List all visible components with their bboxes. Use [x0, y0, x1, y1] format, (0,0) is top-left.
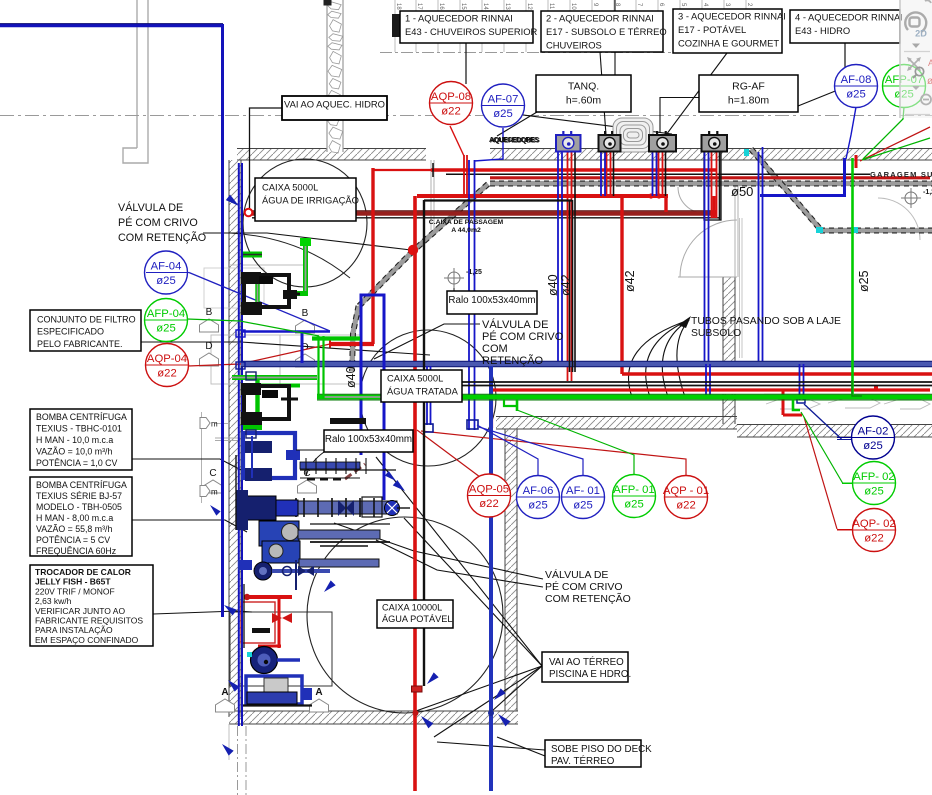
svg-text:D: D: [205, 341, 212, 352]
svg-text:13: 13: [504, 3, 510, 10]
svg-text:AF-08: AF-08: [841, 74, 872, 86]
svg-text:ÁGUA POTÁVEL: ÁGUA POTÁVEL: [382, 614, 452, 624]
svg-text:PARA INSTALAÇÃO: PARA INSTALAÇÃO: [35, 625, 113, 635]
svg-text:FREQUÊNCIA 60Hz: FREQUÊNCIA 60Hz: [36, 546, 116, 556]
svg-text:ESPECIFICADO: ESPECIFICADO: [37, 327, 104, 337]
svg-text:Ralo 100x53x40mm: Ralo 100x53x40mm: [448, 295, 535, 306]
svg-text:H MAN - 8,00 m.c.a: H MAN - 8,00 m.c.a: [36, 513, 113, 523]
svg-text:-1,2: -1,2: [923, 189, 932, 196]
svg-text:ø22: ø22: [676, 500, 695, 512]
svg-text:EM ESPAÇO CONFINADO: EM ESPAÇO CONFINADO: [35, 635, 139, 645]
svg-text:B: B: [302, 308, 309, 319]
svg-text:15: 15: [460, 3, 466, 10]
svg-text:AQUEREDQBES: AQUEREDQBES: [490, 138, 540, 145]
svg-text:MODELO - TBH-0505: MODELO - TBH-0505: [36, 502, 122, 512]
svg-text:ø42: ø42: [559, 274, 573, 296]
svg-text:2,63 kw/h: 2,63 kw/h: [35, 596, 72, 606]
svg-text:VERIFICAR JUNTO AO: VERIFICAR JUNTO AO: [35, 606, 125, 616]
svg-text:AQP- 02: AQP- 02: [852, 518, 895, 530]
svg-text:CAIXA 5000L: CAIXA 5000L: [262, 182, 318, 193]
svg-text:PELO FABRICANTE.: PELO FABRICANTE.: [37, 339, 123, 349]
svg-text:A: A: [315, 687, 322, 698]
svg-text:17: 17: [416, 3, 422, 10]
svg-text:POTÊNCIA = 1,0 CV: POTÊNCIA = 1,0 CV: [36, 458, 118, 468]
svg-text:C.AIXA DE PASSAGEM: C.AIXA DE PASSAGEM: [429, 219, 504, 226]
svg-text:ø25: ø25: [156, 323, 175, 335]
svg-text:AQP-04: AQP-04: [147, 353, 187, 365]
svg-text:PAV. TÉRREO: PAV. TÉRREO: [551, 756, 615, 767]
svg-text:1 - AQUECEDOR RINNAI: 1 - AQUECEDOR RINNAI: [405, 13, 513, 24]
svg-text:ø25: ø25: [528, 500, 547, 512]
svg-text:TEXIUS SÉRIE BJ-57: TEXIUS SÉRIE BJ-57: [36, 491, 122, 501]
svg-text:AF-04: AF-04: [151, 261, 182, 273]
svg-text:RETENÇÃO: RETENÇÃO: [482, 354, 544, 367]
svg-text:ø42: ø42: [623, 270, 637, 292]
svg-text:h=1.80m: h=1.80m: [728, 95, 769, 107]
svg-text:COZINHA E GOURMET: COZINHA E GOURMET: [678, 38, 779, 49]
svg-text:BOMBA CENTRÍFUGA: BOMBA CENTRÍFUGA: [36, 412, 127, 422]
svg-text:18: 18: [395, 3, 401, 10]
svg-text:ÁGUA DE IRRIGAÇÃO: ÁGUA DE IRRIGAÇÃO: [262, 194, 359, 205]
svg-text:2D: 2D: [915, 29, 927, 39]
svg-text:ø25: ø25: [863, 440, 882, 452]
svg-text:h=.60m: h=.60m: [566, 95, 602, 107]
svg-text:ø25: ø25: [864, 486, 883, 498]
svg-text:AFP- 01: AFP- 01: [613, 484, 654, 496]
svg-text:FABRICANTE REQUISITOS: FABRICANTE REQUISITOS: [35, 615, 143, 625]
svg-text:AF-02: AF-02: [858, 426, 889, 438]
svg-text:TANQ.: TANQ.: [568, 81, 599, 93]
svg-text:PÉ COM CRIVO: PÉ COM CRIVO: [545, 580, 623, 593]
svg-text:VAZÃO = 55,8 m³/h: VAZÃO = 55,8 m³/h: [36, 524, 112, 534]
svg-text:PISCINA E HDRO.: PISCINA E HDRO.: [549, 669, 631, 680]
svg-text:ø25: ø25: [156, 275, 175, 287]
svg-text:m: m: [211, 488, 218, 497]
svg-text:VÁLVULA DE: VÁLVULA DE: [118, 201, 183, 214]
svg-text:Ralo 100x53x40mm: Ralo 100x53x40mm: [325, 434, 412, 445]
svg-text:TUBOS PASANDO SOB A LAJE: TUBOS PASANDO SOB A LAJE: [691, 316, 841, 327]
svg-text:ø25: ø25: [493, 108, 512, 120]
svg-text:A 44,0m2: A 44,0m2: [451, 227, 481, 234]
svg-text:RG-AF: RG-AF: [732, 81, 765, 93]
svg-text:E17 - SUBSOLO E TÉRREO: E17 - SUBSOLO E TÉRREO: [546, 26, 667, 37]
svg-text:TEXIUS - TBHC-0101: TEXIUS - TBHC-0101: [36, 424, 122, 434]
svg-text:ø25: ø25: [857, 270, 871, 292]
svg-text:ø22: ø22: [864, 533, 883, 545]
svg-text:16: 16: [438, 3, 444, 10]
svg-text:A: A: [221, 687, 228, 698]
svg-text:E43 - HIDRO: E43 - HIDRO: [795, 25, 850, 36]
svg-text:VAZÃO = 10,0 m³/h: VAZÃO = 10,0 m³/h: [36, 447, 112, 457]
svg-text:ø40: ø40: [344, 366, 358, 388]
svg-text:CHUVEIROS: CHUVEIROS: [546, 40, 602, 51]
svg-text:AF- 01: AF- 01: [566, 485, 600, 497]
svg-text:ø25: ø25: [573, 500, 592, 512]
svg-text:CONJUNTO DE FILTRO: CONJUNTO DE FILTRO: [37, 314, 136, 324]
svg-text:VÁLVULA DE: VÁLVULA DE: [482, 318, 548, 331]
svg-text:3 - AQUECEDOR RINNAI: 3 - AQUECEDOR RINNAI: [678, 11, 786, 22]
svg-text:VAI AO TÉRREO: VAI AO TÉRREO: [549, 657, 624, 668]
svg-text:B: B: [206, 307, 213, 318]
svg-text:VÁLVULA DE: VÁLVULA DE: [545, 568, 608, 581]
svg-text:m: m: [211, 420, 218, 429]
svg-text:CAIXA 10000L: CAIXA 10000L: [382, 603, 442, 613]
svg-text:COM: COM: [482, 343, 508, 355]
svg-text:11: 11: [548, 3, 554, 10]
svg-text:SOBE PISO DO DECK: SOBE PISO DO DECK: [551, 744, 652, 755]
svg-text:ø22: ø22: [441, 106, 460, 118]
svg-text:C: C: [209, 468, 216, 479]
svg-text:AF-07: AF-07: [488, 94, 519, 106]
svg-text:PÉ COM CRIVO: PÉ COM CRIVO: [482, 330, 564, 343]
svg-text:4 - AQUECEDOR RINNAI: 4 - AQUECEDOR RINNAI: [795, 12, 903, 23]
svg-text:ø22: ø22: [157, 368, 176, 380]
svg-text:JELLY FISH - B65T: JELLY FISH - B65T: [35, 577, 111, 587]
svg-text:10: 10: [570, 3, 576, 10]
svg-text:BOMBA CENTRÍFUGA: BOMBA CENTRÍFUGA: [36, 480, 127, 490]
svg-text:E17 - POTÁVEL: E17 - POTÁVEL: [678, 24, 746, 35]
svg-text:AQP - 01: AQP - 01: [663, 485, 709, 497]
svg-text:AFP-04: AFP-04: [147, 308, 185, 320]
svg-text:AF-06: AF-06: [523, 485, 554, 497]
svg-text:AQP-05: AQP-05: [469, 484, 509, 496]
svg-text:ÁGUA TRATADA: ÁGUA TRATADA: [387, 385, 459, 396]
svg-text:COM RETENÇÃO: COM RETENÇÃO: [118, 231, 206, 244]
svg-text:14: 14: [482, 3, 488, 10]
svg-text:ø25: ø25: [846, 89, 865, 101]
svg-text:ø22: ø22: [479, 498, 498, 510]
svg-text:ø25: ø25: [624, 499, 643, 511]
svg-text:POTÊNCIA = 5 CV: POTÊNCIA = 5 CV: [36, 535, 110, 545]
svg-text:E43 - CHUVEIROS SUPERIOR: E43 - CHUVEIROS SUPERIOR: [405, 26, 538, 37]
svg-text:220V TRIF / MONOF: 220V TRIF / MONOF: [35, 586, 115, 596]
svg-text:CAIXA 5000L: CAIXA 5000L: [387, 373, 443, 384]
svg-text:PÉ COM CRIVO: PÉ COM CRIVO: [118, 216, 198, 229]
svg-text:2 - AQUECEDOR RINNAI: 2 - AQUECEDOR RINNAI: [546, 13, 654, 24]
svg-text:GARAGEM SU: GARAGEM SU: [870, 170, 932, 179]
svg-text:VAI AO AQUEC. HIDRO: VAI AO AQUEC. HIDRO: [284, 99, 385, 110]
svg-text:ø40: ø40: [546, 274, 560, 296]
svg-text:COM RETENÇÃO: COM RETENÇÃO: [545, 592, 631, 605]
svg-text:H MAN - 10,0 m.c.a: H MAN - 10,0 m.c.a: [36, 435, 113, 445]
svg-text:ø50: ø50: [731, 184, 753, 199]
svg-text:12: 12: [526, 3, 532, 10]
svg-text:AQP-08: AQP-08: [431, 91, 471, 103]
svg-text:TROCADOR DE CALOR: TROCADOR DE CALOR: [35, 567, 131, 577]
svg-text:SUBSOLO: SUBSOLO: [691, 328, 741, 339]
svg-text:AFP- 02: AFP- 02: [853, 471, 894, 483]
